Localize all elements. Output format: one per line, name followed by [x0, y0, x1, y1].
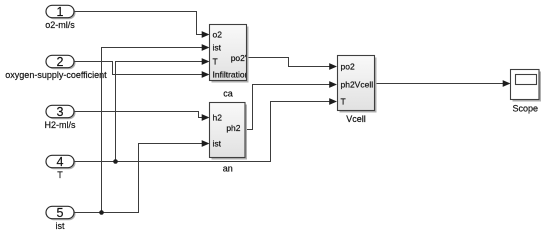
svg-text:ist: ist	[213, 139, 222, 149]
svg-text:T: T	[57, 170, 63, 180]
svg-text:h2: h2	[213, 113, 223, 123]
junction dot T	[113, 159, 118, 164]
wire an.ph2 to Vcell.ph2Vcell	[245, 81, 337, 129]
subsystem block an	[210, 103, 248, 160]
svg-text:po2': po2'	[231, 53, 247, 63]
svg-text:H2-ml/s: H2-ml/s	[45, 120, 76, 130]
svg-text:po2: po2	[341, 62, 355, 72]
svg-text:4: 4	[57, 155, 64, 169]
inport 1 (o2-ml/s)	[46, 5, 76, 19]
svg-text:ist: ist	[56, 221, 65, 231]
svg-text:ph2: ph2	[226, 123, 240, 133]
svg-text:1: 1	[57, 5, 64, 19]
svg-text:T: T	[213, 57, 218, 67]
svg-text:o2: o2	[213, 30, 223, 40]
inport 5 (ist)	[46, 206, 76, 220]
svg-text:T: T	[341, 97, 346, 107]
wire port2 to ca.Infiltration	[74, 62, 209, 78]
wire branch ist riser to ca.ist	[102, 44, 210, 212]
junction dot ist	[99, 210, 104, 215]
svg-text:ist: ist	[213, 43, 222, 53]
svg-text:ph2Vcell: ph2Vcell	[341, 80, 374, 90]
wire branch T riser to ca.T	[116, 58, 210, 161]
svg-text:an: an	[223, 164, 233, 174]
wire ca.po2' to Vcell.po2	[246, 58, 338, 70]
inport 2 (oxygen-supply-coefficient)	[46, 55, 76, 69]
wire port3 to an.h2	[74, 112, 210, 121]
svg-text:5: 5	[57, 206, 64, 220]
svg-text:Scope: Scope	[513, 104, 539, 114]
svg-text:2: 2	[57, 55, 64, 69]
svg-text:Vcell: Vcell	[346, 114, 366, 124]
subsystem block ca	[210, 25, 249, 83]
scope screen	[516, 75, 537, 85]
svg-text:o2-ml/s: o2-ml/s	[45, 20, 75, 30]
wire port4 to Vcell.T	[74, 98, 337, 161]
wire port1 to ca.o2	[74, 12, 210, 38]
svg-text:Infiltration: Infiltration	[213, 70, 250, 80]
scope block	[511, 70, 542, 102]
wire Vcell out to Scope	[375, 80, 511, 87]
subsystem block Vcell	[338, 56, 377, 113]
inport 3 (H2-ml/s)	[46, 105, 76, 119]
svg-text:ca: ca	[223, 89, 233, 99]
wire port5 to an.ist	[74, 140, 210, 212]
svg-text:3: 3	[57, 105, 64, 119]
inport 4 (T)	[46, 155, 76, 169]
svg-text:oxygen-supply-coefficient: oxygen-supply-coefficient	[5, 70, 107, 80]
